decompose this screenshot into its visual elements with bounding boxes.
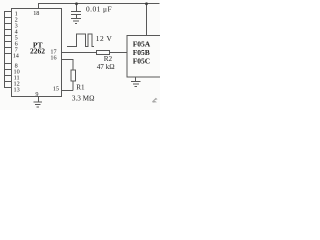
pin 6 wire [4,41,12,43]
svg-text:F05C: F05C [133,57,151,66]
pin 3 wire [4,23,12,25]
junction dot at capacitor tap [75,2,78,5]
svg-text:15: 15 [53,85,59,92]
svg-text:12 V: 12 V [96,34,113,43]
pin 9 ground stub [38,97,40,102]
capacitor stub from rail [76,4,78,12]
pin 2 wire [4,17,12,19]
pin 4 wire [4,29,12,31]
output waveform annotation [67,34,94,47]
svg-text:2262: 2262 [30,47,45,56]
pin 11 wire [4,75,12,77]
ground below F05 box [131,77,141,87]
resistor R2 [97,51,110,55]
pin 1 wire [4,11,12,13]
scan artifact mark bottom right [152,98,158,103]
pin 10 wire [4,69,12,71]
pin 7 wire [4,47,12,49]
R2 to F05 box wire [110,52,127,54]
ground below capacitor [71,19,81,24]
pin 5 wire [4,35,12,37]
svg-text:16: 16 [50,54,56,61]
svg-text:R2: R2 [104,55,113,63]
pin 8 wire [4,63,12,65]
svg-text:14: 14 [13,53,19,60]
svg-text:9: 9 [35,91,38,98]
svg-text:R1: R1 [76,84,85,92]
pin 18 wire to VCC rail [38,4,40,9]
pin 17 output wire to R2 [62,52,97,54]
pin 12 wire [4,81,12,83]
left address bus vertical line [4,12,6,88]
junction dot at VCC drop [145,2,148,5]
IC PT2262 box [12,9,62,97]
resistor R1 [71,70,76,81]
pin 16 wire to R1 top [62,60,74,71]
svg-text:0.01 μF: 0.01 μF [86,5,112,14]
VCC drop to F05 box [146,4,148,37]
svg-text:47 kΩ: 47 kΩ [97,63,115,71]
capacitor C1 0.01uF plates [71,12,81,15]
F05 transmitter box [127,36,163,78]
svg-text:3.3 MΩ: 3.3 MΩ [72,95,95,103]
R1 bottom to pin 15 wire [62,81,74,91]
svg-text:18: 18 [33,10,39,17]
svg-text:13: 13 [14,86,20,93]
ground below pin 9 [34,102,43,107]
pin 13 wire [4,87,12,89]
VCC top rail [38,3,160,5]
capacitor lower stub [76,15,78,19]
pin 14 wire [4,53,12,55]
